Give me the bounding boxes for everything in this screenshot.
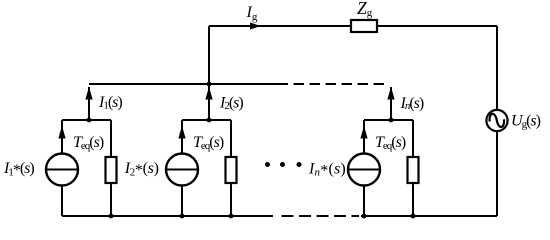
svg-text:Teq(s): Teq(s) bbox=[193, 134, 224, 152]
svg-text:Zg: Zg bbox=[357, 0, 373, 19]
svg-text:I2(s): I2(s) bbox=[219, 95, 243, 113]
svg-text:Ug(s): Ug(s) bbox=[511, 113, 541, 131]
svg-text:Teq(s): Teq(s) bbox=[73, 134, 104, 152]
svg-text:I1*(s): I1*(s) bbox=[3, 160, 34, 179]
svg-text:Ig: Ig bbox=[246, 4, 258, 23]
svg-text:Teq(s): Teq(s) bbox=[375, 134, 406, 152]
svg-text:In(s): In(s) bbox=[400, 95, 424, 112]
svg-text:I2*(s): I2*(s) bbox=[124, 160, 159, 179]
svg-text:I1(s): I1(s) bbox=[98, 94, 122, 112]
svg-text:In*(s): In*(s) bbox=[308, 161, 346, 180]
